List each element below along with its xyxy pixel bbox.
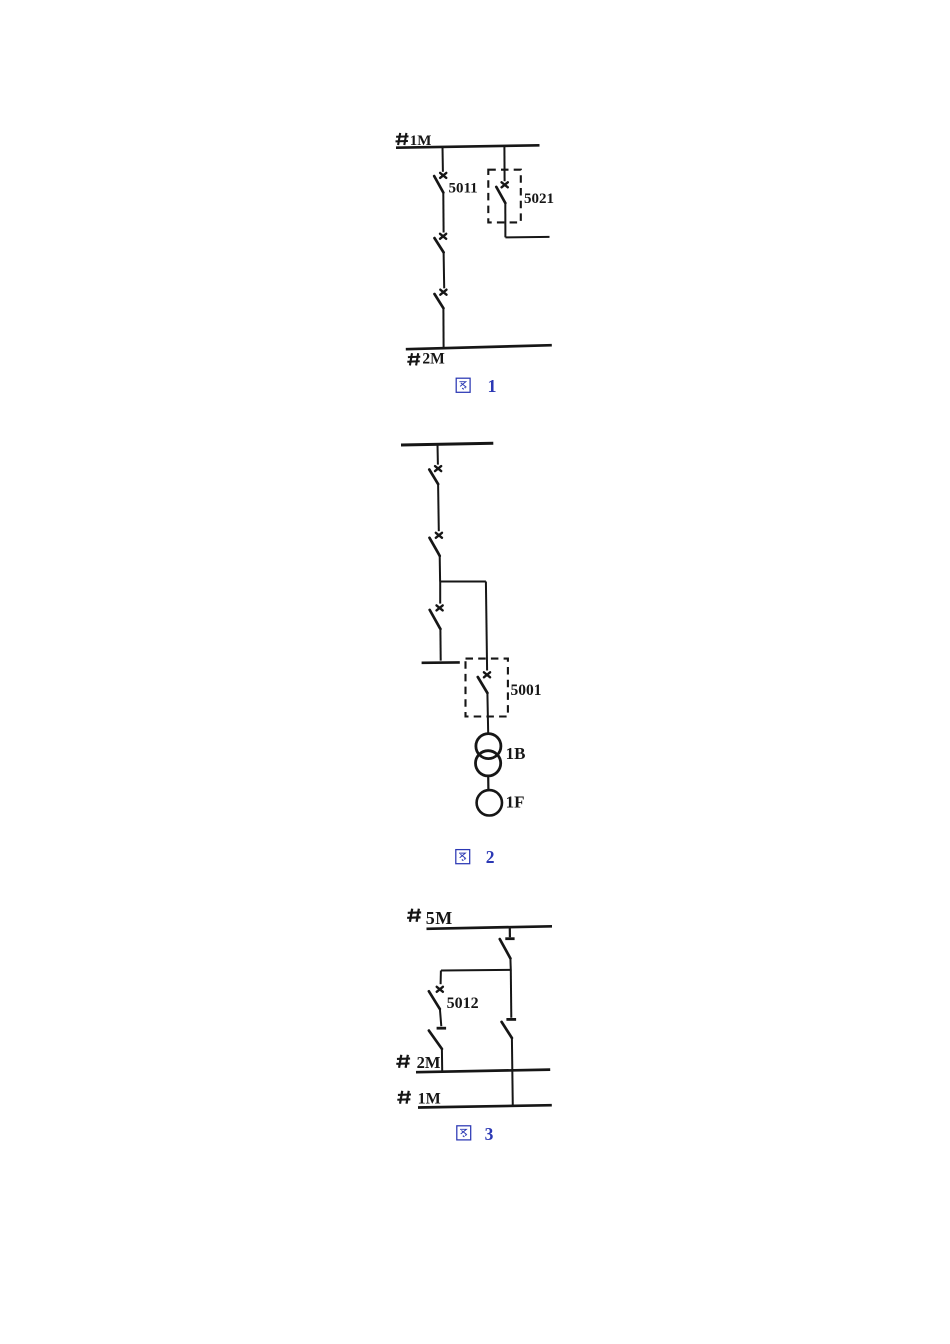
disconnector contact bar (right lower): [506, 1018, 516, 1021]
wire: [442, 193, 444, 233]
breaker blade (third): [435, 294, 444, 308]
svg-text:2M: 2M: [422, 351, 445, 368]
wire: [509, 958, 511, 970]
disconnector contact bar (top right): [505, 937, 514, 940]
wire branch junction horizontal: [440, 581, 486, 583]
breaker contact x (first): [435, 466, 441, 471]
wire to terminal: [439, 629, 441, 661]
wire: [440, 1009, 441, 1026]
breaker 5001 blade: [478, 677, 488, 693]
wire left stub from branch: [440, 971, 442, 985]
disconnector blade (top right): [500, 939, 511, 958]
bus #2M: [416, 1070, 550, 1073]
bus #1M (figure 3): [418, 1105, 552, 1107]
wire bus #5M stub: [509, 928, 511, 938]
breaker 5011 contact x: [440, 173, 446, 178]
bus label #1M: [396, 133, 409, 145]
svg-text:5M: 5M: [426, 908, 453, 928]
disconnector blade (right lower): [502, 1022, 512, 1038]
svg-text:1B: 1B: [506, 744, 526, 763]
wire: [443, 252, 446, 288]
disconnector contact bar (left): [437, 1027, 447, 1030]
bus label #5M: [407, 909, 421, 922]
breaker contact x (second): [436, 533, 442, 538]
bus (top of figure 2): [401, 443, 493, 445]
wire right vertical: [510, 970, 513, 1018]
svg-text:1M: 1M: [418, 1091, 441, 1108]
breaker 5021 blade: [496, 187, 505, 203]
breaker contact x (third): [437, 605, 443, 610]
breaker 5021 dashed enclosure: [488, 170, 521, 223]
caption figure 2: [456, 850, 470, 864]
terminal bar: [422, 661, 460, 664]
breaker 5021 contact x: [502, 182, 508, 187]
bus label #1M (figure 3): [397, 1091, 411, 1104]
wire to junction: [439, 556, 441, 582]
wire down from 5021: [504, 203, 506, 237]
caption figure 3: [457, 1126, 471, 1140]
breaker 5011 blade: [434, 176, 443, 192]
svg-text:1F: 1F: [506, 793, 525, 812]
bus #2M: [406, 345, 552, 349]
wire bus #1M to breaker 5011: [442, 147, 444, 172]
svg-text:1: 1: [488, 376, 497, 396]
svg-text:5012: 5012: [447, 995, 479, 1012]
svg-text:2M: 2M: [417, 1053, 441, 1072]
wire 5001 to transformer: [486, 693, 489, 734]
breaker blade (second): [435, 238, 444, 252]
svg-text:5021: 5021: [524, 191, 554, 207]
svg-text:5001: 5001: [511, 682, 542, 699]
svg-text:5011: 5011: [449, 181, 478, 197]
wire branch horizontal: [441, 969, 511, 972]
svg-text:2: 2: [486, 847, 495, 867]
generator 1F circle: [477, 790, 502, 815]
wire right vertical into 5001: [486, 582, 487, 671]
breaker blade (second): [430, 538, 440, 556]
svg-text:3: 3: [485, 1124, 494, 1144]
wire right to bus #1M: [511, 1038, 514, 1107]
transformer 1B winding 1: [476, 734, 501, 759]
caption figure 1: [456, 378, 470, 392]
breaker 5012 blade: [429, 991, 440, 1009]
wire bus to first breaker: [437, 445, 439, 465]
wire to bus #2M: [442, 308, 444, 347]
wire bus #1M to breaker 5021: [503, 146, 505, 181]
breaker blade (first): [429, 470, 438, 485]
breaker contact x (second): [440, 234, 446, 239]
wire left vertical: [439, 582, 441, 604]
transformer 1B winding 2: [476, 751, 501, 776]
breaker blade (third): [430, 610, 441, 629]
breaker contact x (third): [440, 290, 446, 295]
breaker 5001 dashed enclosure: [466, 659, 508, 717]
bus label #2M: [407, 353, 420, 365]
bus #1M: [396, 145, 540, 147]
wire transformer to generator: [487, 776, 489, 790]
wire to bus #2M: [441, 1049, 443, 1071]
wire: [437, 484, 440, 531]
breaker 5001 contact x: [484, 672, 490, 677]
wire horizontal out of figure 1: [505, 236, 549, 239]
bus #5M: [427, 926, 553, 929]
breaker 5012 contact x: [437, 987, 443, 992]
svg-text:1M: 1M: [410, 133, 432, 149]
bus label #2M: [396, 1055, 410, 1068]
disconnector blade (left): [429, 1031, 442, 1049]
